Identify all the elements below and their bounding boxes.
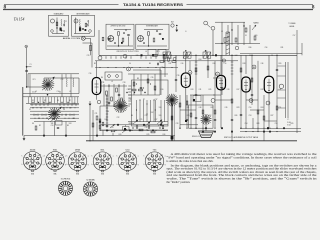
valve V5 rectifier [264, 76, 274, 93]
svg-text:R6: R6 [101, 77, 103, 79]
wire node72 lead [189, 61, 191, 71]
valve base diagram V5 U50 [118, 150, 137, 172]
x232 tick 3 [231, 67, 234, 69]
resistor R44 [102, 122, 104, 126]
svg-text:C34: C34 [127, 89, 130, 91]
svg-text:V2: V2 [188, 55, 190, 57]
wire drop x161 [160, 70, 162, 95]
resistor R16 [251, 78, 253, 82]
terminal mains aerial [211, 26, 215, 30]
wire IF cluster vertical 2 [108, 84, 110, 106]
wafer comb tick 9 [51, 97, 53, 104]
junction x241 bottom [240, 128, 241, 129]
wafer comb tick 12 [59, 97, 61, 104]
bus tick 3 [115, 56, 117, 58]
junction B1 d [123, 32, 125, 34]
rail y128 dot 13 [276, 128, 277, 129]
junction bus c [251, 55, 252, 56]
contact blob 2 [152, 54, 154, 56]
wire link y100 [215, 99, 232, 101]
coil L10 top [226, 31, 230, 33]
junction row a [126, 92, 127, 93]
header thick rule [3, 9, 313, 11]
svg-text:R15: R15 [147, 134, 150, 136]
terminal frame aerial [204, 21, 208, 25]
junction gang a [47, 94, 49, 96]
switch contact 14 [71, 114, 72, 115]
junction mid a [132, 127, 133, 128]
x232 tick 1 [231, 61, 234, 63]
svg-text:C52: C52 [209, 115, 212, 117]
wire cluster x238 [237, 25, 239, 45]
bus chassis rail left y135 [24, 135, 175, 137]
switch bank dot 1 [136, 83, 137, 84]
junction A1 c [56, 27, 57, 28]
resistor R8 [106, 91, 108, 95]
resistor R2 [85, 23, 87, 27]
wire far right lead [296, 30, 298, 133]
bus y67 dot 5 [132, 67, 133, 68]
svg-text:VR1: VR1 [129, 123, 132, 125]
wire drop x148 [147, 74, 149, 95]
switch bank dot 4 [155, 89, 156, 90]
capacitor C11 [276, 70, 278, 71]
junction top right b [231, 29, 232, 30]
resistor R40 [190, 113, 192, 117]
bus tick 9 [150, 56, 152, 58]
wire rail y124.8 [100, 124, 168, 126]
resistor R21 [153, 54, 158, 56]
contact blob 9 [171, 99, 173, 101]
junction A1 a [61, 30, 63, 32]
bus rail y61 [95, 60, 238, 62]
svg-text:C29: C29 [87, 55, 90, 57]
solder blob 3 [117, 124, 119, 126]
rail y130 dot 5 [132, 130, 133, 131]
wire cluster bottom rail [100, 105, 130, 107]
wire fan2 drop [54, 121, 56, 136]
svg-text:S20: S20 [255, 35, 258, 37]
resistor R24 [133, 82, 135, 86]
arrow VC2 [48, 107, 61, 120]
resistor R33 [163, 58, 165, 62]
coil L5 [66, 78, 69, 87]
resistor R48 [162, 125, 164, 128]
ladder stub 2 [278, 75, 286, 77]
wafer tick x107 11 [106, 125, 108, 127]
switch contact 13 [65, 114, 66, 115]
wire mid rail y130 [100, 129, 168, 131]
rail y130 dot 3 [116, 130, 117, 131]
IFT1 box [148, 50, 156, 56]
wafer comb tick 18 [77, 97, 79, 104]
bus left rail y93 [23, 93, 80, 95]
switch contact 9 [63, 107, 64, 108]
wafer comb tick 4 [36, 97, 38, 104]
svg-text:L3: L3 [69, 91, 71, 93]
capacitor C6 [108, 103, 110, 104]
capacitor C3 [159, 34, 161, 35]
svg-text:S13: S13 [69, 123, 72, 125]
voltage node 85 [252, 65, 256, 69]
svg-text:is omitted, the value is less: is omitted, the value is less than one o… [167, 160, 214, 163]
svg-text:C30: C30 [89, 73, 92, 75]
capacitor C18 [195, 118, 197, 119]
resistor R4 [122, 38, 124, 42]
valve base diagram V4 N61 [93, 150, 112, 172]
svg-text:C38: C38 [161, 67, 164, 69]
svg-text:R16: R16 [213, 63, 216, 65]
switch S21 arrow [122, 129, 127, 133]
switch wafer diagram S1 [58, 179, 72, 196]
switch contact 16 [46, 118, 47, 119]
wafer tick x107 10 [106, 122, 108, 124]
svg-text:R4: R4 [131, 115, 133, 117]
junction cluster top a [165, 55, 166, 56]
switch contact 2 [38, 102, 39, 103]
switch S19 arrow [110, 124, 115, 128]
svg-text:L4: L4 [145, 51, 147, 53]
bus y67 dot 1 [100, 67, 101, 68]
bus tick 6 [130, 56, 132, 58]
coil L10 turn 5 [226, 49, 230, 51]
wire drop x141 [140, 74, 142, 95]
svg-text:C26: C26 [145, 127, 148, 129]
wire drop x134 [133, 74, 135, 95]
node OPT HT [211, 99, 215, 103]
node top c [173, 58, 176, 61]
resistor R39 [186, 101, 188, 105]
wire wafer drop b [65, 122, 67, 136]
rail y131 dot 2 [252, 131, 253, 132]
wafer row5 dot 6 [69, 118, 70, 119]
wafer row2 dot 3 [41, 107, 42, 108]
svg-text:VC1: VC1 [33, 79, 36, 81]
wire LS1 lead [205, 125, 207, 131]
wafer comb tick 10 [54, 97, 56, 104]
wafer row1 tick 8 [67, 104, 69, 106]
svg-text:S2: S2 [29, 109, 31, 111]
resistor R27 [207, 66, 209, 70]
loudspeaker LS1 coil [201, 114, 212, 125]
bus AVC rail y67 [95, 67, 178, 69]
x196 tick 5 [195, 73, 198, 75]
wafer tick x107 7 [106, 113, 108, 115]
rail y128 dot 5 [214, 128, 215, 129]
resistor R14 [202, 110, 204, 114]
IFT3 trimmer b [116, 75, 119, 78]
switch bank dot 7 [153, 99, 154, 100]
svg-text:C42: C42 [205, 51, 208, 53]
bus y67 dot 8 [156, 67, 157, 68]
svg-text:R14: R14 [199, 59, 202, 61]
wire drop x97 [96, 122, 98, 136]
contact blob 8 [185, 120, 187, 122]
svg-text:R10: R10 [161, 89, 164, 91]
junction B2 a [148, 45, 149, 46]
svg-text:S9: S9 [32, 123, 34, 125]
coil L1b [63, 20, 66, 26]
svg-text:SPEECH COIL: SPEECH COIL [192, 136, 202, 138]
svg-text:S3: S3 [44, 100, 46, 102]
wire gram stub [85, 37, 90, 39]
comb left tick 7 [128, 103, 131, 105]
box OPT tag panel [193, 96, 201, 102]
wire drop from terminal [212, 30, 214, 55]
junction x277 bottom [276, 128, 277, 129]
resistor R20 [172, 61, 176, 63]
wafer row2 dot 1 [33, 107, 34, 108]
svg-text:C49: C49 [225, 107, 228, 109]
capacitor C4 aerial coupling [25, 70, 28, 71]
switch contact 3 [43, 102, 44, 103]
resistor R15 [231, 99, 233, 103]
wafer row4 tick 5 [61, 114, 63, 116]
wire V4 anode lead [245, 55, 247, 74]
solder blob 7 [160, 124, 162, 126]
junction B1 b [125, 29, 126, 30]
box oscillator subcircuit [106, 24, 134, 49]
resistor R35 [132, 89, 136, 91]
solder blob 15 [214, 131, 216, 133]
bus right rail y131 [240, 131, 301, 133]
switch bank dot 8 [136, 109, 137, 110]
resistor R41 [214, 110, 216, 114]
junction x196 bottom [195, 128, 196, 129]
junction bus b [231, 55, 232, 56]
svg-text:V4: V4 [249, 55, 251, 57]
bus tick 2 [110, 56, 112, 58]
svg-text:F1: F1 [245, 35, 247, 37]
svg-text:L8: L8 [221, 31, 223, 33]
junction bus e [166, 55, 167, 56]
bus y67 dot 6 [140, 67, 141, 68]
solder blob 13 [231, 131, 233, 133]
wire chain x191 [190, 95, 192, 128]
voltage node 72 [188, 71, 192, 75]
svg-text:R3: R3 [67, 125, 69, 127]
wire drop x155 [154, 74, 156, 95]
svg-text:C44: C44 [235, 55, 238, 57]
wire drop x160 [159, 68, 161, 96]
wire V2 anode lead [185, 55, 187, 73]
blob B1 [121, 42, 123, 44]
svg-text:R2: R2 [39, 125, 41, 127]
switch arrow S20 [252, 25, 256, 30]
solder blob 2 [106, 130, 108, 132]
wire IF cluster vertical 4 [118, 84, 120, 106]
wire aerial tap stub [27, 66, 32, 68]
capacitor C12 [158, 63, 159, 65]
junction B1 c [114, 42, 116, 44]
wire chain x277 [276, 55, 278, 128]
svg-text:R13: R13 [119, 134, 122, 136]
svg-text:R26: R26 [235, 115, 238, 117]
switch bank dot 2 [143, 87, 144, 88]
wafer row4 tick 7 [69, 114, 71, 116]
wire below wafers [34, 121, 76, 123]
bus tick 11 [165, 56, 167, 58]
blob A2 contact b [85, 29, 87, 31]
wire link y78 [213, 77, 221, 79]
rail y130 dot 9 [164, 130, 165, 131]
IFT2 box [158, 50, 166, 56]
wafer row4 tick 3 [41, 114, 43, 116]
resistor R10 [116, 88, 118, 92]
transformer TR1 box [56, 121, 63, 126]
switch wafer row 5 [30, 117, 79, 119]
switch bank dot 10 [155, 109, 156, 110]
capacitor C9 [231, 120, 233, 121]
cross mark B1 edge [108, 38, 110, 40]
wire tuning top rail [44, 77, 79, 79]
x196 tick 4 [195, 70, 198, 72]
svg-text:C41: C41 [199, 89, 202, 91]
svg-text:R5: R5 [94, 63, 96, 65]
junction x180 bottom [179, 128, 180, 129]
box intermediate aerial circuit [72, 15, 95, 36]
junction cluster a [108, 85, 109, 86]
voltage node 65 [216, 72, 220, 76]
rail y131 dot 4 [263, 131, 264, 132]
wire B2 top rail [144, 29, 163, 31]
solder blob 4 [129, 130, 131, 132]
x232 tick 2 [231, 64, 234, 66]
svg-text:IFT1: IFT1 [156, 51, 159, 53]
switch bank dot 6 [146, 103, 147, 104]
wafer row1 tick 4 [43, 104, 45, 106]
junction A1 d [63, 24, 64, 25]
wafer row4 tick 2 [37, 114, 39, 116]
wire tuning drop x44 [43, 78, 45, 87]
wafer row1 tick 10 [75, 104, 77, 106]
switch bank contact line 6 [153, 100, 155, 122]
wire link y110 [250, 109, 264, 111]
wafer row1 tick 6 [59, 104, 61, 106]
x196 tick 1 [195, 61, 198, 63]
capacitor C13 [106, 126, 108, 127]
wafer comb tick 7 [45, 97, 47, 104]
svg-text:C55: C55 [275, 123, 278, 125]
wafer row5 dot 7 [73, 118, 74, 119]
box standard aerial circuit [49, 15, 69, 36]
resistor R1 [56, 22, 58, 26]
resistor R22 [139, 129, 143, 131]
wire chain x196 [195, 55, 197, 128]
resistor R31 [179, 103, 181, 107]
arrow VC1 [42, 77, 54, 90]
solder blob 5 [143, 124, 145, 126]
wafer comb tick 3 [33, 97, 35, 104]
junction bus f [185, 55, 186, 56]
junction top right c [243, 25, 244, 26]
switch contact 6 [67, 102, 68, 103]
junction mid b [146, 129, 147, 130]
valve base diagram V6 Y63 [145, 150, 164, 172]
wire chain x241 [240, 55, 242, 128]
resistor R49 [102, 37, 104, 41]
wire gram drop [90, 38, 92, 55]
rail y131 dot 3 [257, 131, 258, 132]
wire x99 vertical [98, 30, 100, 55]
bus tick 4 [120, 56, 122, 58]
switch bank contact line 9 [164, 100, 166, 122]
resistor R50 [235, 38, 237, 42]
terminal P1 [98, 56, 102, 60]
svg-text:R15: R15 [209, 89, 212, 91]
svg-text:R11: R11 [169, 63, 172, 65]
wire V3 cathode lead [220, 90, 222, 128]
IFT4 winding pair [183, 52, 191, 58]
solder blob 10 [65, 135, 67, 137]
wafer row1 tick 9 [71, 104, 73, 106]
rail y128 dot 1 [186, 128, 187, 129]
node mains a [235, 46, 239, 50]
switch contact 8 [40, 107, 41, 108]
svg-text:CIRCUITS OF TU154 TYPES: CIRCUITS OF TU154 TYPES [116, 51, 139, 53]
svg-text:R29: R29 [291, 123, 294, 125]
switch bank contact line 8 [160, 100, 162, 122]
junction bus d [276, 55, 277, 56]
wafer tick x107 4 [106, 104, 108, 106]
wire rail y70 [133, 69, 161, 71]
coil L1 [60, 19, 63, 26]
junction mid c [159, 127, 160, 128]
wire B2 bottom rail [137, 45, 167, 47]
svg-text:C36: C36 [136, 55, 139, 57]
rail y130 dot 7 [148, 130, 149, 131]
resistor R17 [257, 110, 259, 114]
solder blob 1 [99, 121, 101, 123]
valve V1 frequency changer [92, 78, 101, 95]
junction bus a [195, 55, 196, 56]
capacitor C8 [195, 95, 197, 96]
svg-text:C25: C25 [140, 119, 143, 121]
svg-text:R17: R17 [237, 89, 240, 91]
wafer row4 tick 1 [33, 114, 35, 116]
wire rail to speaker [180, 124, 198, 126]
svg-text:SWITCH TO ALTERNATIVE OUTPUT V: SWITCH TO ALTERNATIVE OUTPUT VALVE [224, 136, 259, 139]
svg-text:R19: R19 [261, 89, 264, 91]
wire IF cluster vertical 3 [113, 84, 115, 106]
comb left tick 5 [128, 97, 131, 99]
capacitor C19 [186, 120, 188, 121]
blob A2 contact [79, 28, 81, 31]
wafer row1 tick 1 [31, 104, 33, 106]
wire tuning drop x28 [27, 74, 29, 87]
svg-text:R22: R22 [211, 107, 214, 109]
terminal A2 [89, 30, 92, 33]
IFT3 box [105, 72, 122, 80]
svg-text:C50: C50 [249, 107, 252, 109]
socket SK1 [279, 84, 283, 88]
wire chain x258 [257, 61, 259, 128]
wire rail y43 [215, 43, 260, 45]
capacitor C5 [57, 128, 59, 129]
voltage node bus [123, 54, 127, 58]
switch bank contact line 2 [139, 100, 141, 122]
capacitor C15 [175, 80, 177, 81]
junction row b [134, 92, 135, 93]
wire chain x187 [186, 95, 188, 128]
svg-text:C57: C57 [293, 35, 296, 37]
resistor R7 [35, 126, 37, 130]
valve V3 detector [217, 75, 226, 90]
coil L10 turn 2 [226, 37, 230, 39]
resistor R19 [160, 61, 164, 63]
solder blob 12 [221, 127, 223, 129]
x196 tick 3 [195, 67, 198, 69]
